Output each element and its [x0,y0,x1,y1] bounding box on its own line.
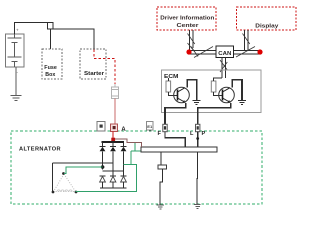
stator delta winding [52,172,78,193]
connector E1 [146,122,153,132]
svg-text:E1: E1 [147,124,153,129]
diode D5 [110,176,116,188]
teal wire delta top to column 1 [64,167,103,174]
wire starter to fuse F1 (red) [94,50,115,85]
wire junction to starter [53,29,94,49]
svg-text:Driver Information: Driver Information [160,15,214,21]
connector F [163,124,167,131]
capacitor C1 [158,165,166,169]
alternator box [11,131,262,204]
wire Q2 emitter to connector L [198,103,231,124]
diode D4 [100,176,106,188]
transistor Q2 [219,87,235,103]
ground right [194,205,201,209]
teal wire column 3 to delta bottom-right [76,164,137,191]
CAN bus left segment [190,47,216,58]
wire R1 to Q1 base [169,92,178,95]
transistor Q1 [174,87,190,103]
Display box [237,7,297,30]
connector B+ [97,122,105,132]
wire battery positive [15,23,49,35]
svg-text:L: L [190,131,194,137]
wire capacitor to ground [160,169,162,205]
ground C1 [157,205,164,209]
ground Q1 [193,101,201,105]
diode D3 [121,143,127,177]
connector L/P [196,124,200,131]
svg-text:P: P [202,131,206,137]
wire strip to capacitor [160,152,162,165]
phase junction line (delta bottom-left to column 2) [53,162,114,164]
wire strip right to ground [196,152,199,204]
wire Q1 emitter to connector F [165,103,186,124]
CAN node box [216,46,234,58]
svg-text:Display: Display [255,24,278,30]
terminator dot right [257,49,262,54]
maroon wire rectifier to strip [115,139,141,147]
resistor R1 [166,78,171,92]
wire fuse to connector A (red) [114,99,116,125]
battery BT1 [6,28,25,75]
svg-text:Starter: Starter [84,71,104,77]
twisted pair CAN to ECM [220,58,227,79]
diode D6 [121,176,127,188]
wire connector L to strip [197,132,199,147]
wire connector F to strip [165,132,185,147]
CAN bus right segment [234,47,260,58]
connector strip bar [141,147,217,152]
rectifier top bus [102,141,125,143]
svg-text:CAN: CAN [218,51,231,57]
svg-text:A: A [121,126,126,133]
diode D2 [110,143,116,177]
wire Q2 collector loop [232,80,242,101]
ground battery [10,67,21,101]
svg-text:Center: Center [177,23,200,29]
fuse F1 [111,84,118,99]
connector A [111,124,118,132]
junction dot LP [196,137,199,140]
starter box [80,49,106,79]
teal wire strip to sense line [131,143,141,165]
wire Q1 collector loop [187,80,197,101]
wire A to rectifier (red) [112,132,114,141]
phase link line (column 1 to column 3) [103,170,124,172]
rectifier bottom bus [100,187,127,189]
junction dot A (red) [111,138,115,141]
resistor R2 [211,78,222,92]
svg-text:ALTERNATOR: ALTERNATOR [19,147,61,153]
twisted pair DIC to bus [188,30,195,52]
svg-text:+: + [16,28,19,33]
svg-text:Box: Box [45,72,55,78]
terminator dot left [186,49,191,54]
diode D1 [100,143,106,170]
svg-text:Fuse: Fuse [44,65,57,71]
ECM box [162,70,262,113]
twisted pair Display to bus [243,30,250,51]
junction dot phase [101,165,105,169]
junction box J1 [48,23,53,29]
fuse box [42,49,62,79]
svg-text:F: F [158,131,162,137]
Driver Information Center box [157,7,216,30]
wire junction to fuse box [50,29,52,49]
wire phase left leg [52,163,54,192]
svg-text:ECM: ECM [164,74,179,80]
ground Q2 [238,101,246,105]
wire R2 to Q2 base [214,92,223,95]
